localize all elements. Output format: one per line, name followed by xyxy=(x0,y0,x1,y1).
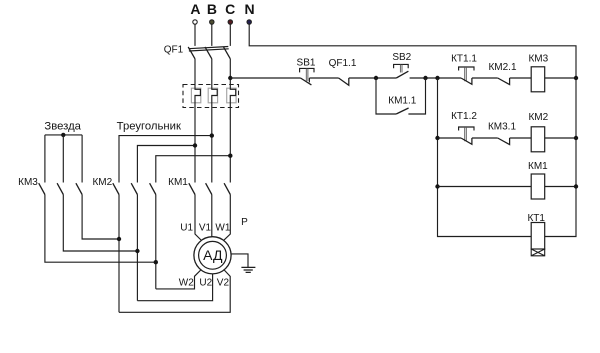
coil KM3 xyxy=(531,67,545,92)
contact KM2 pole3 blade xyxy=(150,183,156,194)
breaker QF1 pole C blade xyxy=(224,47,231,59)
button SB2 NO contact blade xyxy=(396,71,408,78)
wire QF1.1 to SB2 xyxy=(349,77,397,79)
contact KT1.1 cap xyxy=(459,67,474,71)
button SB1 cap xyxy=(300,68,314,72)
svg-text:КМ2: КМ2 xyxy=(92,177,112,188)
contact KM3 pole2 blade xyxy=(57,183,63,194)
svg-text:W1: W1 xyxy=(215,223,230,234)
svg-text:C: C xyxy=(225,1,235,17)
node delta tap on A xyxy=(193,143,197,147)
svg-text:V2: V2 xyxy=(217,278,230,289)
thermal element phase A gray case xyxy=(191,88,200,103)
wire KM3 coil to right rail xyxy=(545,77,576,79)
contact KM1 pole3 blade xyxy=(224,183,230,194)
terminal A xyxy=(193,20,197,24)
wire SB1 to QF1.1 xyxy=(309,77,338,79)
contact KM1 pole1 blade xyxy=(189,183,195,194)
contact KM3.1 xyxy=(498,138,510,145)
contact KM2.1 xyxy=(498,78,510,85)
ground symbol xyxy=(241,267,255,272)
node right rail row2 xyxy=(574,136,578,140)
node delta tap on B xyxy=(210,133,214,137)
svg-text:КМ3: КМ3 xyxy=(18,177,38,188)
wire phase B xyxy=(211,24,213,46)
svg-text:КМ2: КМ2 xyxy=(528,112,548,123)
node control tap on phase C xyxy=(228,76,232,80)
svg-text:SB2: SB2 xyxy=(392,52,411,63)
svg-text:КМ3.1: КМ3.1 xyxy=(488,122,516,133)
thermal element phase C gray case xyxy=(227,88,236,103)
svg-text:U1: U1 xyxy=(180,223,193,234)
node right rail row3 xyxy=(574,184,578,188)
node junction KM3-KM2 pole2 xyxy=(135,249,139,253)
svg-text:КМ3: КМ3 xyxy=(528,53,548,64)
thermal relay dashed box xyxy=(183,85,239,108)
svg-text:КТ1.2: КТ1.2 xyxy=(451,111,477,122)
wire KM2 pole1 lower xyxy=(118,195,120,313)
wire W1 to motor xyxy=(224,195,231,241)
wire N to right rail xyxy=(249,24,576,236)
node junction KM3-KM2 pole3 xyxy=(154,260,158,264)
svg-text:N: N xyxy=(245,1,255,17)
svg-text:КМ1: КМ1 xyxy=(168,177,188,188)
node junction KM3-KM2 pole1 xyxy=(117,237,121,241)
node right rail row1 xyxy=(574,76,578,80)
wire KM2 pole2 lower xyxy=(136,195,138,301)
svg-text:КМ2.1: КМ2.1 xyxy=(488,62,516,73)
svg-text:W2: W2 xyxy=(179,278,194,289)
wire phase C xyxy=(229,24,231,46)
wire KM1 coil to right rail xyxy=(545,186,576,188)
node feeder top junction xyxy=(435,76,439,80)
wire KM3 pole1 upper xyxy=(44,135,46,183)
wire KM1.1 branch left xyxy=(376,78,396,114)
svg-text:Звезда: Звезда xyxy=(44,121,81,133)
button SB2 stem xyxy=(400,64,402,72)
coil KT1 delay box xyxy=(531,249,545,256)
wire KM2 pole1 upper to phase B xyxy=(119,136,212,183)
wire KM3 pole1 lower to V2 row xyxy=(45,195,156,263)
coil KM1 xyxy=(531,174,545,199)
contact KM3 pole3 blade xyxy=(76,183,82,194)
svg-text:Р: Р xyxy=(241,217,248,228)
svg-text:SB1: SB1 xyxy=(297,57,316,68)
svg-text:КТ1.1: КТ1.1 xyxy=(451,53,477,64)
contact KM1 pole2 blade xyxy=(206,183,212,194)
node KM1.1 right junction xyxy=(423,76,427,80)
wire row2 left xyxy=(438,137,462,139)
wire KM1.1 branch right xyxy=(408,78,425,114)
motor AD inner circle xyxy=(199,241,227,269)
wire phase B with heater meander down to KM1 contact xyxy=(212,59,217,183)
contact KT1.2 cap xyxy=(459,127,474,131)
contact KT1.2 blade xyxy=(461,138,472,144)
svg-text:V1: V1 xyxy=(199,223,212,234)
wire KM2 coil to right rail xyxy=(545,137,576,139)
thermal element phase B gray case xyxy=(208,88,217,103)
button SB1 stem xyxy=(306,68,308,81)
wire KM3 pole2 upper xyxy=(62,135,64,183)
wire row3 left xyxy=(438,186,532,188)
contact KT1.2 stem xyxy=(465,127,467,141)
terminal B xyxy=(210,20,214,24)
node star bus junction xyxy=(61,133,65,137)
node feeder row2 junction xyxy=(435,136,439,140)
wire SB2 to KT1.1 xyxy=(410,77,461,79)
breaker QF1 pole A blade xyxy=(188,47,195,59)
contact KM3 pole1 blade xyxy=(39,183,45,194)
contact KM1.1 blade xyxy=(396,108,408,114)
node KM1.1 left junction xyxy=(374,76,378,80)
svg-text:B: B xyxy=(207,1,217,17)
wire phase A xyxy=(194,24,196,46)
svg-text:A: A xyxy=(190,1,200,17)
wire KT1.2 to KM3.1 xyxy=(472,137,498,139)
wire phase C with heater meander down to KM1 contact xyxy=(230,59,235,183)
wire KM2.1 to KM3 coil xyxy=(510,77,532,79)
contact KT1.1 blade xyxy=(461,78,472,84)
svg-text:QF1.1: QF1.1 xyxy=(329,58,357,69)
wire KM3.1 to KM2 coil xyxy=(510,137,532,139)
svg-text:Треугольник: Треугольник xyxy=(117,121,181,133)
svg-text:КМ1: КМ1 xyxy=(528,161,548,172)
svg-text:КМ1.1: КМ1.1 xyxy=(388,95,416,106)
svg-text:U2: U2 xyxy=(199,278,212,289)
coil KT1 xyxy=(531,223,545,250)
wire KM3 pole2 lower to U2 row xyxy=(63,195,137,252)
button SB2 cap xyxy=(394,64,409,68)
wire KT1.1 to KM2.1 xyxy=(472,77,498,79)
wire V2 from motor xyxy=(119,270,230,312)
wire V1 to motor xyxy=(211,195,213,237)
button SB1 NC contact blade xyxy=(301,78,312,85)
terminal N xyxy=(247,20,251,24)
wire KM3 pole3 upper xyxy=(81,135,83,183)
wire KM3 pole3 lower to W2 row xyxy=(82,195,119,240)
star bus wire xyxy=(45,134,82,136)
wire KM2 pole3 lower xyxy=(155,195,157,289)
breaker QF1 pole B blade xyxy=(205,47,212,59)
svg-text:QF1: QF1 xyxy=(164,44,184,55)
motor AD outer circle xyxy=(194,237,231,274)
wire U1 to motor xyxy=(195,195,201,241)
contact KM2 pole2 blade xyxy=(131,183,137,194)
wire U2 from motor xyxy=(137,274,212,301)
contact KT1.1 stem xyxy=(465,67,467,81)
breaker QF1 tie bar xyxy=(189,47,229,52)
wire feeder left vertical xyxy=(438,78,532,237)
button SB1 right tick xyxy=(308,78,310,82)
wire W2 from motor xyxy=(156,270,201,289)
contact QF1.1 xyxy=(339,78,349,85)
wire KM2 pole2 upper to phase A xyxy=(137,146,195,183)
ground wire from motor xyxy=(231,254,248,267)
coil KM2 xyxy=(531,127,545,152)
node feeder row3 junction xyxy=(435,184,439,188)
contact KM2 pole1 blade xyxy=(113,183,119,194)
node delta tap on C xyxy=(228,154,232,158)
wire control rail to SB1 xyxy=(230,77,300,79)
svg-text:АД: АД xyxy=(203,247,223,263)
wire phase A with heater meander down to KM1 contact xyxy=(195,59,200,183)
terminal C xyxy=(228,20,232,24)
wire KM2 pole3 upper to phase C xyxy=(156,156,231,183)
